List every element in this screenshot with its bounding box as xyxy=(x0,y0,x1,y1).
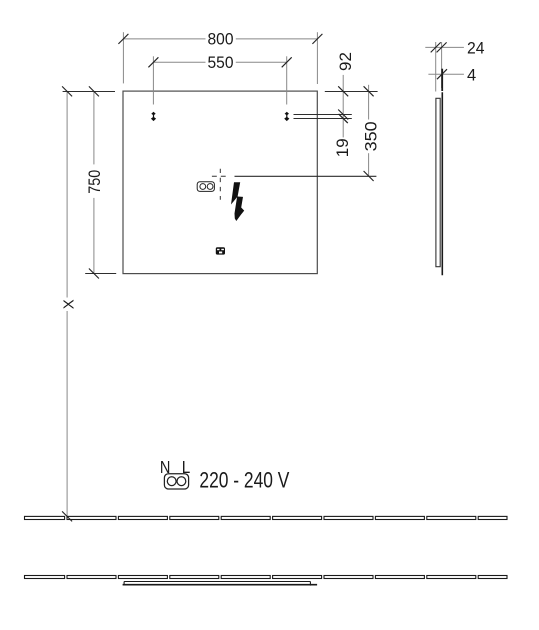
LED spot left xyxy=(151,112,156,121)
extension lines LED row xyxy=(294,114,352,116)
svg-text:24: 24 xyxy=(467,40,485,58)
dimension 19 xyxy=(333,114,352,157)
side view housing xyxy=(436,98,440,266)
junction box socket on mirror xyxy=(197,182,214,192)
wall line top view xyxy=(25,576,508,579)
svg-text:350: 350 xyxy=(362,121,381,151)
dimension X overall height xyxy=(60,86,77,521)
svg-text:19: 19 xyxy=(333,138,352,157)
dimension 350 xyxy=(362,85,381,181)
extension line junction box to 350 xyxy=(235,175,377,177)
mirror top view glass xyxy=(123,584,318,586)
floor line front view xyxy=(25,516,508,519)
centerline cross dashed xyxy=(212,169,228,200)
lightning bolt power symbol xyxy=(231,182,244,221)
svg-text:92: 92 xyxy=(336,52,355,71)
svg-text:550: 550 xyxy=(208,53,234,72)
side view glass pane xyxy=(441,92,443,275)
extension line mirror top right xyxy=(325,91,378,93)
svg-text:800: 800 xyxy=(208,30,234,49)
dimension 800 xyxy=(118,30,322,84)
svg-text:X: X xyxy=(60,299,77,309)
extension line mirror bottom left xyxy=(85,273,116,275)
mains socket symbol xyxy=(164,474,188,489)
operating switch icon xyxy=(216,247,225,254)
dimension 4 xyxy=(428,66,476,91)
dimension 92 xyxy=(336,52,355,137)
extension line mirror top left xyxy=(63,91,115,93)
dimension 750 xyxy=(85,86,104,278)
svg-text:220 - 240 V: 220 - 240 V xyxy=(199,468,289,493)
svg-text:750: 750 xyxy=(85,170,104,194)
svg-text:4: 4 xyxy=(467,66,476,84)
dimension 24 xyxy=(425,40,484,92)
mirror front view outline xyxy=(123,91,317,274)
LED spot right xyxy=(284,112,289,121)
dimension 550 xyxy=(148,53,291,104)
mirror top view housing xyxy=(124,582,310,586)
